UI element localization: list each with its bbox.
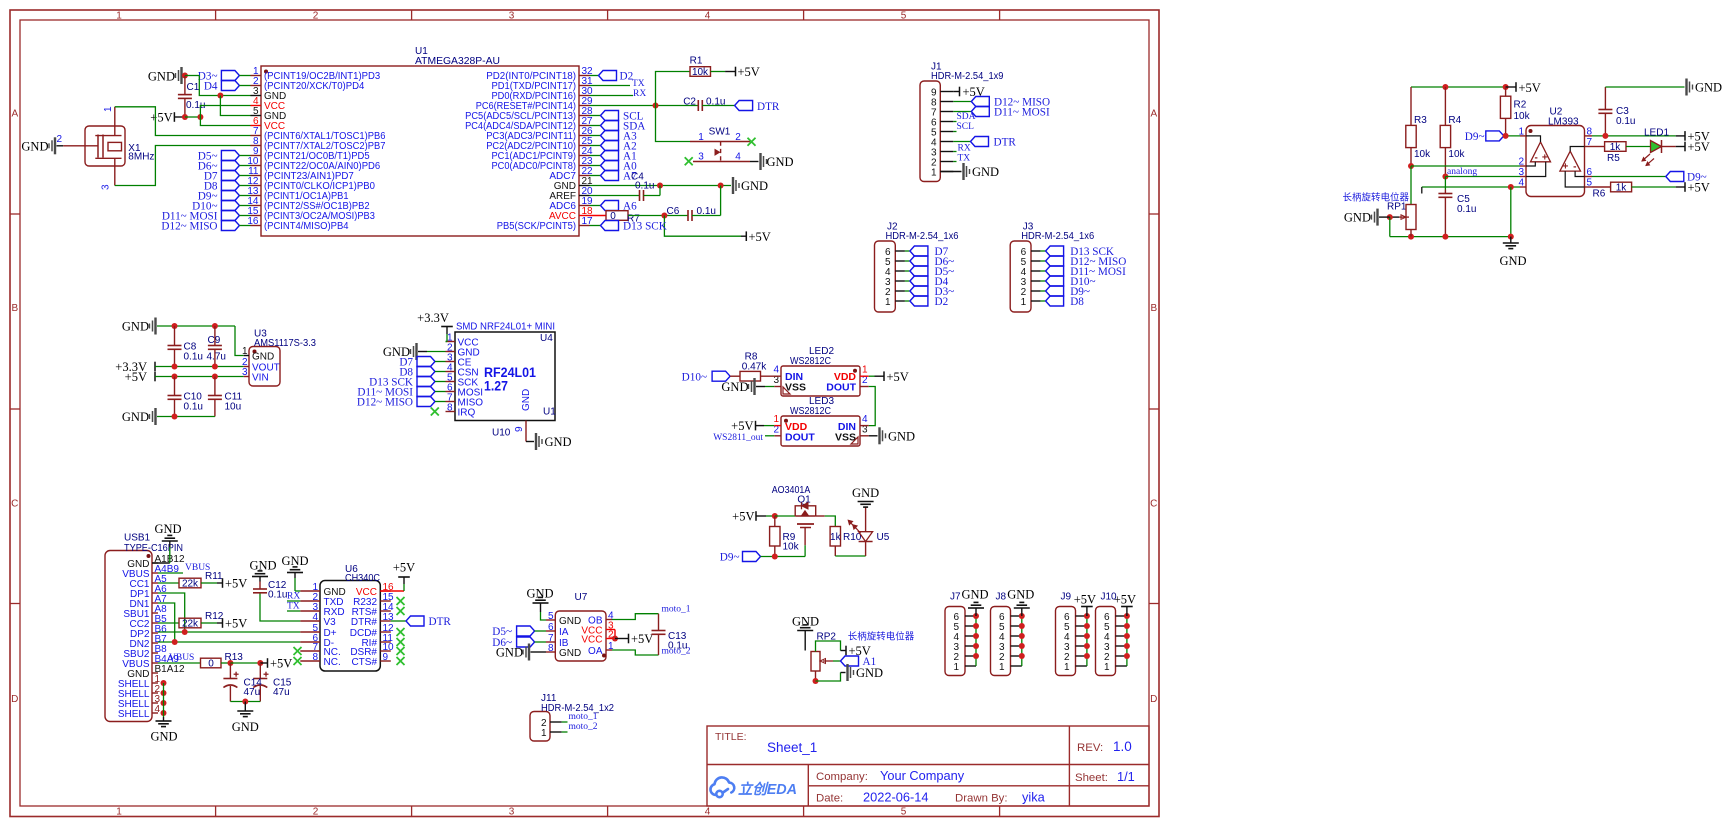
svg-text:GND: GND (496, 646, 523, 660)
svg-text:8: 8 (548, 643, 554, 654)
svg-text:1: 1 (773, 414, 779, 425)
svg-text:SDA: SDA (957, 112, 976, 122)
svg-text:2: 2 (735, 132, 741, 143)
svg-text:GND: GND (281, 554, 308, 568)
svg-text:J9: J9 (1061, 592, 1072, 603)
svg-text:J7: J7 (950, 592, 961, 603)
svg-text:1: 1 (1064, 662, 1070, 673)
svg-text:D: D (11, 694, 18, 705)
svg-text:+5V: +5V (393, 561, 415, 575)
svg-text:VBUS: VBUS (169, 653, 194, 663)
svg-text:TX: TX (632, 79, 645, 89)
svg-text:1: 1 (698, 132, 704, 143)
svg-text:6: 6 (548, 622, 554, 633)
svg-text:GND: GND (972, 165, 999, 179)
svg-text:GND: GND (252, 352, 274, 363)
svg-text:U4: U4 (540, 333, 553, 344)
svg-text:2: 2 (313, 10, 319, 21)
svg-text:+5V: +5V (732, 510, 754, 524)
svg-text:DTR: DTR (429, 616, 452, 628)
svg-text:1: 1 (541, 728, 547, 739)
svg-text:9: 9 (383, 652, 389, 663)
svg-text:0.1u: 0.1u (668, 641, 687, 652)
svg-text:C6: C6 (667, 206, 680, 217)
svg-text:+: + (1542, 152, 1548, 163)
svg-text:7: 7 (1587, 137, 1593, 148)
svg-text:GND: GND (856, 666, 883, 680)
svg-text:U5: U5 (877, 532, 890, 543)
svg-text:moto_2: moto_2 (569, 722, 598, 732)
svg-text:R3: R3 (1414, 115, 1427, 126)
svg-text:0.1u: 0.1u (1616, 116, 1635, 127)
svg-text:SHELL: SHELL (118, 709, 150, 720)
svg-text:0.47k: 0.47k (742, 361, 767, 372)
svg-text:+5V: +5V (225, 617, 247, 631)
svg-text:GND: GND (154, 522, 181, 536)
svg-text:22k: 22k (182, 619, 199, 630)
svg-text:2022-06-14: 2022-06-14 (863, 790, 928, 805)
svg-text:+5V: +5V (738, 65, 760, 79)
svg-text:R1: R1 (690, 56, 703, 67)
svg-text:10k: 10k (1414, 149, 1431, 160)
svg-text:10k: 10k (1514, 111, 1531, 122)
svg-text:U7: U7 (575, 592, 588, 603)
svg-text:+5V: +5V (731, 419, 753, 433)
svg-text:D: D (1150, 694, 1157, 705)
svg-text:moto_1: moto_1 (569, 712, 598, 722)
svg-text:1: 1 (116, 10, 122, 21)
svg-text:GND: GND (852, 486, 879, 500)
svg-text:9: 9 (514, 426, 525, 432)
svg-text:1: 1 (116, 807, 122, 818)
svg-text:C1: C1 (187, 82, 200, 93)
svg-text:8: 8 (447, 403, 453, 414)
svg-text:IRQ: IRQ (458, 408, 476, 419)
svg-text:GND: GND (1007, 588, 1034, 602)
svg-text:D4: D4 (204, 81, 218, 93)
svg-text:moto_1: moto_1 (662, 605, 691, 615)
svg-text:+3.3V: +3.3V (417, 311, 449, 325)
svg-text:Sheet_1: Sheet_1 (767, 740, 817, 755)
svg-text:VCC: VCC (581, 634, 602, 645)
svg-text:GND: GND (721, 380, 748, 394)
svg-text:V3: V3 (324, 617, 337, 628)
svg-text:GND: GND (767, 155, 794, 169)
svg-text:+5V: +5V (749, 230, 771, 244)
svg-text:R11: R11 (205, 571, 223, 582)
svg-text:GND: GND (1344, 211, 1371, 225)
svg-text:1.0: 1.0 (1113, 739, 1132, 754)
svg-text:+5V: +5V (225, 577, 247, 591)
svg-text:RX: RX (958, 144, 971, 154)
svg-text:C: C (11, 499, 18, 510)
svg-text:HDR-M-2.54_1x6: HDR-M-2.54_1x6 (1021, 231, 1094, 242)
svg-text:OA: OA (588, 646, 603, 657)
svg-text:8: 8 (312, 652, 318, 663)
svg-text:4: 4 (705, 10, 711, 21)
svg-text:1: 1 (862, 364, 868, 375)
svg-text:ATMEGA328P-AU: ATMEGA328P-AU (415, 56, 500, 67)
svg-text:1.27: 1.27 (484, 379, 508, 394)
svg-text:1k: 1k (830, 532, 842, 543)
svg-text:C9: C9 (208, 335, 221, 346)
svg-text:GND: GND (1499, 254, 1526, 268)
svg-text:1: 1 (1518, 126, 1524, 137)
svg-text:4: 4 (862, 414, 868, 425)
svg-text:D11~ MOSI: D11~ MOSI (994, 107, 1050, 119)
svg-text:NC.: NC. (324, 657, 341, 668)
svg-text:10k: 10k (692, 67, 709, 78)
svg-text:DTR#: DTR# (351, 617, 378, 628)
svg-text:GND: GND (888, 429, 915, 443)
svg-text:WS2812C: WS2812C (790, 356, 831, 367)
svg-text:D9~: D9~ (1465, 131, 1485, 143)
svg-text:GND: GND (232, 720, 259, 734)
svg-text:5: 5 (1587, 178, 1593, 189)
svg-text:Sheet:: Sheet: (1075, 772, 1108, 784)
svg-text:HDR-M-2.54_1x6: HDR-M-2.54_1x6 (886, 231, 959, 242)
svg-text:C: C (1150, 499, 1157, 510)
svg-text:DOUT: DOUT (785, 432, 815, 444)
svg-text:+5V: +5V (1074, 593, 1096, 607)
svg-text:10k: 10k (1448, 149, 1465, 160)
svg-text:-: - (1573, 162, 1576, 173)
svg-text:R4: R4 (1448, 115, 1461, 126)
svg-text:C2: C2 (683, 97, 696, 108)
svg-text:10u: 10u (225, 402, 242, 413)
svg-text:J8: J8 (996, 592, 1007, 603)
svg-text:长柄旋转电位器: 长柄旋转电位器 (848, 631, 915, 643)
svg-text:GND: GND (21, 140, 48, 154)
svg-text:0.1u: 0.1u (268, 590, 287, 601)
svg-text:USB1: USB1 (124, 533, 151, 544)
svg-text:1: 1 (103, 106, 114, 112)
svg-text:Company:: Company: (816, 771, 868, 783)
svg-text:AMS1117S-3.3: AMS1117S-3.3 (254, 338, 316, 349)
svg-text:4: 4 (155, 704, 161, 715)
svg-text:yika: yika (1022, 790, 1046, 805)
svg-text:3: 3 (509, 807, 515, 818)
svg-text:IA: IA (559, 627, 569, 638)
svg-text:Q1: Q1 (797, 495, 811, 506)
svg-text:CTS#: CTS# (351, 657, 377, 668)
svg-text:SW1: SW1 (709, 127, 731, 138)
svg-text:4: 4 (773, 364, 779, 375)
svg-text:4: 4 (312, 612, 318, 623)
svg-text:D8: D8 (1070, 296, 1084, 308)
svg-text:GND: GND (1695, 81, 1722, 95)
svg-text:RP1: RP1 (1387, 202, 1407, 213)
svg-text:REV:: REV: (1077, 742, 1103, 754)
svg-text:PB5(SCK/PCINT5): PB5(SCK/PCINT5) (497, 221, 576, 232)
svg-text:10k: 10k (783, 542, 800, 553)
svg-text:TYPE-C16PIN: TYPE-C16PIN (124, 543, 183, 554)
svg-text:GND: GND (122, 320, 149, 334)
svg-text:R13: R13 (225, 652, 244, 663)
svg-text:GND: GND (545, 435, 572, 449)
svg-text:TX: TX (958, 154, 971, 164)
svg-text:A: A (11, 109, 18, 120)
svg-text:47u: 47u (273, 687, 290, 698)
svg-text:立创EDA: 立创EDA (738, 781, 797, 798)
svg-text:1: 1 (1021, 297, 1027, 308)
svg-text:R6: R6 (1593, 189, 1606, 200)
svg-text:+: + (1562, 162, 1568, 173)
svg-text:+5V: +5V (1114, 593, 1136, 607)
svg-text:R2: R2 (1514, 100, 1527, 111)
svg-text:Your Company: Your Company (880, 768, 965, 783)
svg-text:+5V: +5V (1519, 81, 1541, 95)
svg-text:A: A (1150, 109, 1157, 120)
svg-text:DOUT: DOUT (826, 382, 856, 394)
svg-text:D2: D2 (935, 296, 949, 308)
svg-text:GND: GND (148, 69, 175, 83)
svg-text:1: 1 (242, 346, 248, 357)
svg-text:0.1u: 0.1u (184, 352, 203, 363)
svg-text:3: 3 (509, 10, 515, 21)
svg-text:5: 5 (901, 807, 907, 818)
svg-text:Drawn By:: Drawn By: (955, 793, 1008, 805)
svg-text:SMD NRF24L01+ MINI: SMD NRF24L01+ MINI (456, 322, 555, 333)
svg-text:GND: GND (150, 730, 177, 744)
svg-text:GND: GND (961, 588, 988, 602)
svg-text:CH340C: CH340C (345, 573, 380, 584)
svg-text:+5V: +5V (125, 370, 147, 384)
svg-text:B: B (11, 303, 18, 314)
svg-text:4.7u: 4.7u (207, 352, 226, 363)
svg-text:2: 2 (313, 807, 319, 818)
svg-text:HDR-M-2.54_1x9: HDR-M-2.54_1x9 (931, 71, 1004, 82)
svg-text:5: 5 (548, 611, 554, 622)
svg-text:22k: 22k (182, 579, 199, 590)
svg-text:4: 4 (705, 807, 711, 818)
svg-text:1: 1 (931, 167, 937, 178)
svg-text:analong: analong (1447, 167, 1477, 177)
svg-text:U1: U1 (543, 407, 556, 418)
svg-text:GND: GND (559, 616, 581, 627)
svg-text:+5V: +5V (1688, 181, 1710, 195)
svg-text:47u: 47u (244, 687, 261, 698)
svg-text:D12~ MISO: D12~ MISO (161, 221, 217, 233)
svg-text:3: 3 (698, 152, 704, 163)
svg-text:0.1u: 0.1u (1457, 204, 1476, 215)
svg-text:RX: RX (287, 592, 300, 602)
svg-text:GND: GND (249, 559, 276, 573)
svg-text:D9~: D9~ (720, 552, 740, 564)
svg-text:R12: R12 (205, 611, 224, 622)
svg-text:DTR: DTR (757, 101, 780, 113)
svg-text:5: 5 (901, 10, 907, 21)
svg-text:Date:: Date: (816, 793, 843, 805)
svg-text:GND: GND (521, 389, 532, 411)
svg-text:GND: GND (741, 179, 768, 193)
svg-text:1k: 1k (1610, 142, 1622, 153)
svg-text:+5V: +5V (150, 111, 172, 125)
svg-text:+5V: +5V (631, 632, 653, 646)
svg-text:SCL: SCL (957, 122, 975, 132)
svg-text:GND: GND (792, 615, 819, 629)
svg-text:-: - (1535, 152, 1538, 163)
svg-text:6: 6 (1587, 167, 1593, 178)
svg-text:R5: R5 (1607, 153, 1620, 164)
svg-text:0: 0 (208, 659, 214, 670)
svg-text:RX: RX (633, 89, 646, 99)
svg-text:TITLE:: TITLE: (715, 731, 747, 743)
svg-text:D12~ MISO: D12~ MISO (357, 397, 413, 409)
svg-text:DTR: DTR (994, 137, 1017, 149)
svg-text:4: 4 (735, 152, 741, 163)
svg-text:2: 2 (56, 134, 62, 145)
svg-text:1: 1 (999, 662, 1005, 673)
svg-text:+5V: +5V (887, 370, 909, 384)
svg-text:1k: 1k (1616, 183, 1628, 194)
svg-text:D10~: D10~ (682, 372, 707, 384)
svg-text:GND: GND (122, 410, 149, 424)
svg-text:VIN: VIN (252, 373, 269, 384)
svg-text:WS2811_out: WS2811_out (713, 433, 763, 443)
svg-text:8MHz: 8MHz (128, 152, 154, 163)
svg-text:+5V: +5V (1688, 140, 1710, 154)
svg-text:1: 1 (1104, 662, 1110, 673)
svg-text:D13 SCK: D13 SCK (623, 221, 667, 233)
svg-text:B: B (1150, 303, 1157, 314)
svg-text:3: 3 (242, 367, 248, 378)
svg-text:1: 1 (885, 297, 891, 308)
svg-text:WS2812C: WS2812C (790, 406, 831, 417)
svg-text:(PCINT4/MISO)PB4: (PCINT4/MISO)PB4 (264, 221, 349, 232)
svg-text:U10: U10 (492, 428, 511, 439)
svg-text:0.1u: 0.1u (635, 181, 654, 192)
svg-text:8: 8 (1587, 126, 1593, 137)
svg-text:TX: TX (287, 602, 300, 612)
svg-text:LED1: LED1 (1644, 128, 1669, 139)
svg-text:LM393: LM393 (1548, 117, 1579, 128)
svg-text:GND: GND (559, 648, 581, 659)
svg-text:0.1u: 0.1u (184, 402, 203, 413)
svg-text:3: 3 (101, 184, 112, 190)
svg-text:+5V: +5V (270, 657, 292, 671)
svg-text:GND: GND (526, 587, 553, 601)
svg-text:1/1: 1/1 (1117, 769, 1135, 784)
svg-text:1: 1 (953, 662, 959, 673)
